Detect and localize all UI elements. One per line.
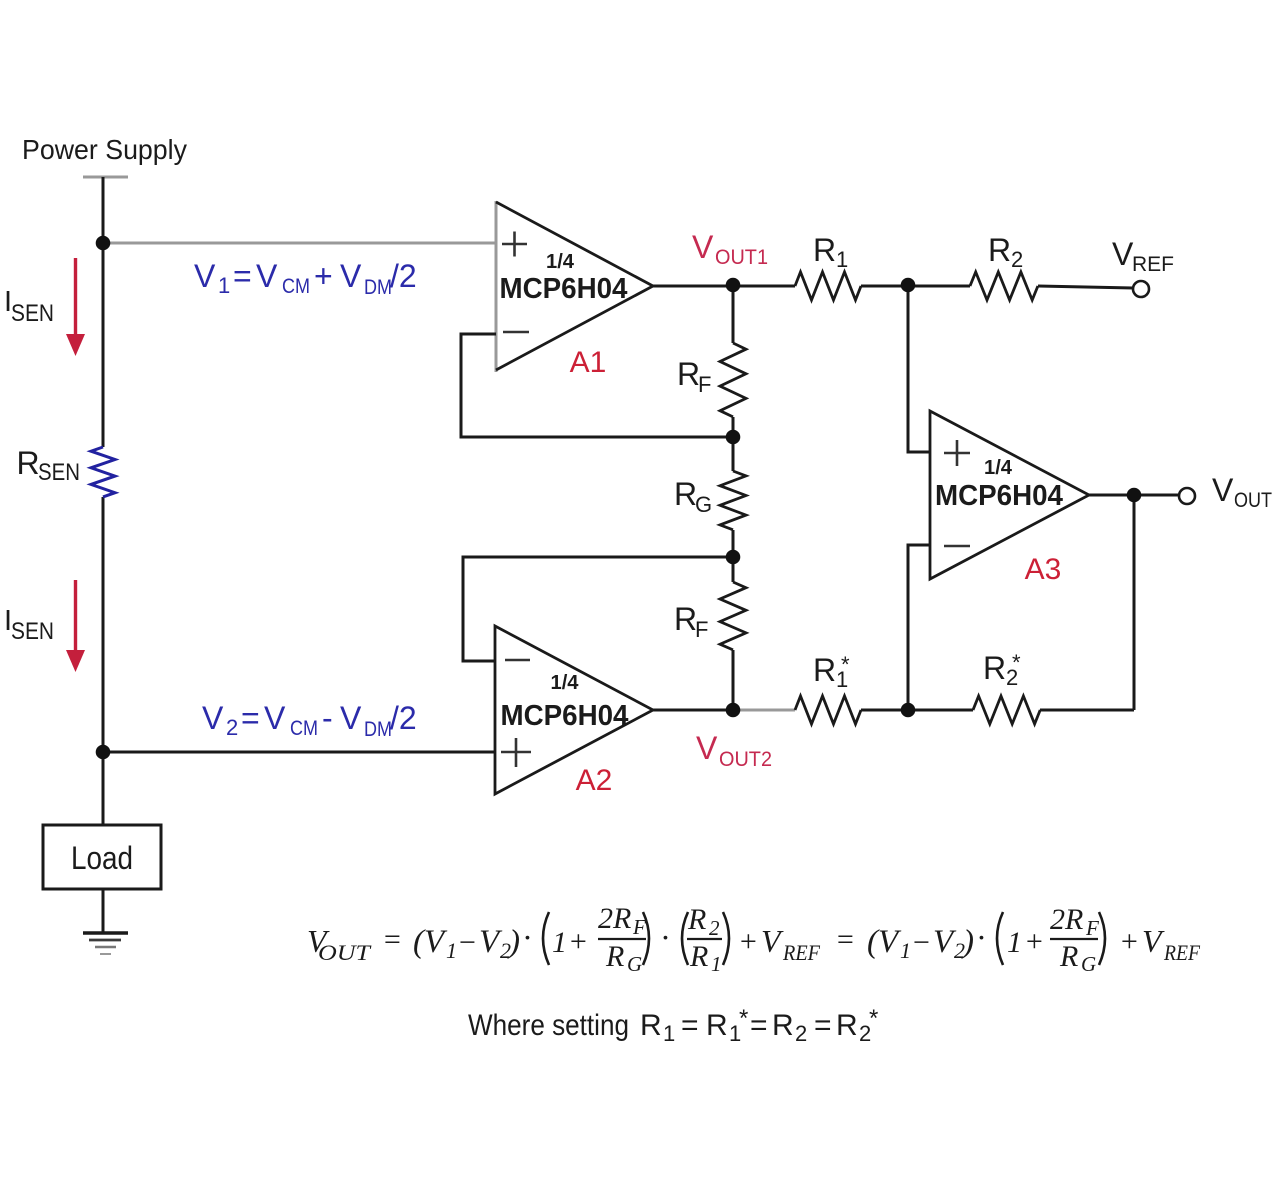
svg-text:R: R — [772, 1009, 794, 1042]
svg-text:V: V — [256, 258, 278, 294]
svg-text:Power Supply: Power Supply — [22, 134, 187, 165]
svg-text:1/4: 1/4 — [551, 672, 580, 694]
svg-text:*: * — [739, 1005, 748, 1032]
svg-text:2: 2 — [795, 1021, 807, 1046]
svg-text:A1: A1 — [570, 346, 607, 379]
svg-text:−: − — [911, 926, 931, 959]
svg-text:DM: DM — [364, 276, 392, 299]
svg-text:1: 1 — [663, 1021, 675, 1046]
svg-text:): ) — [961, 924, 974, 960]
svg-text:·: · — [977, 919, 985, 955]
svg-text:A3: A3 — [1025, 553, 1062, 586]
svg-text:MCP6H04: MCP6H04 — [501, 700, 629, 732]
svg-text:SEN: SEN — [11, 300, 54, 327]
svg-text:R: R — [674, 476, 697, 512]
svg-text:/2: /2 — [390, 700, 417, 736]
svg-text:F: F — [695, 617, 708, 642]
svg-text:1: 1 — [1007, 926, 1022, 959]
svg-text:=: = — [233, 258, 252, 294]
svg-text:1: 1 — [552, 926, 567, 959]
svg-text:V: V — [1112, 236, 1134, 272]
svg-text:2R: 2R — [598, 902, 631, 935]
svg-text:+: + — [568, 925, 588, 958]
svg-text:*: * — [869, 1005, 878, 1032]
svg-text:V: V — [340, 700, 362, 736]
svg-text:R: R — [640, 1009, 662, 1042]
svg-text:R: R — [1059, 940, 1078, 973]
svg-text:R: R — [674, 601, 697, 637]
svg-text:A2: A2 — [576, 764, 613, 797]
svg-text:1: 1 — [218, 273, 230, 298]
svg-text:R: R — [17, 445, 40, 481]
svg-text:*: * — [841, 652, 850, 677]
svg-text:1: 1 — [446, 938, 457, 963]
svg-text:SEN: SEN — [38, 459, 80, 486]
svg-text:OUT: OUT — [318, 940, 372, 965]
svg-text:1: 1 — [836, 247, 848, 272]
svg-text:REF: REF — [782, 940, 820, 965]
svg-text:Load: Load — [71, 840, 133, 876]
svg-text:R: R — [677, 356, 700, 392]
svg-text:*: * — [1012, 650, 1021, 675]
svg-text:Where setting: Where setting — [468, 1009, 629, 1042]
svg-text:V: V — [692, 229, 714, 265]
svg-text:+: + — [738, 925, 758, 958]
svg-text:−: − — [457, 926, 477, 959]
svg-text:+: + — [1119, 925, 1139, 958]
svg-text:2: 2 — [1011, 247, 1023, 272]
svg-text:=: = — [835, 923, 855, 956]
svg-text:V: V — [340, 258, 362, 294]
svg-text:1: 1 — [711, 952, 722, 976]
svg-text:1/4: 1/4 — [546, 251, 575, 273]
svg-text:V: V — [1212, 472, 1234, 508]
svg-text:1: 1 — [900, 938, 911, 963]
svg-text:-: - — [322, 700, 333, 736]
svg-text:=: = — [241, 700, 260, 736]
svg-text:R: R — [813, 232, 836, 268]
svg-text:R: R — [836, 1009, 858, 1042]
svg-text:R: R — [988, 232, 1011, 268]
svg-text:F: F — [632, 915, 646, 939]
svg-text:V: V — [194, 258, 216, 294]
svg-text:·: · — [661, 919, 669, 955]
svg-text:OUT2: OUT2 — [719, 748, 772, 771]
svg-text:=: = — [681, 1009, 699, 1042]
svg-text:CM: CM — [290, 717, 318, 740]
svg-text:REF: REF — [1163, 940, 1200, 965]
svg-text:(V: (V — [413, 924, 448, 960]
svg-text:=: = — [750, 1009, 768, 1042]
svg-text:MCP6H04: MCP6H04 — [935, 480, 1063, 512]
svg-text:/2: /2 — [390, 258, 417, 294]
svg-text:=: = — [814, 1009, 832, 1042]
svg-text:SEN: SEN — [11, 618, 54, 645]
svg-text:·: · — [523, 919, 531, 955]
svg-text:OUT: OUT — [1234, 489, 1272, 512]
svg-text:2R: 2R — [1050, 903, 1083, 936]
svg-text:1/4: 1/4 — [984, 457, 1013, 479]
svg-text:+: + — [314, 258, 333, 294]
svg-text:R: R — [687, 903, 706, 936]
svg-text:R: R — [706, 1009, 728, 1042]
svg-text:R: R — [983, 650, 1006, 686]
svg-text:V: V — [264, 700, 286, 736]
svg-text:MCP6H04: MCP6H04 — [500, 273, 628, 305]
svg-text:OUT1: OUT1 — [715, 246, 768, 269]
svg-text:2: 2 — [709, 916, 720, 940]
svg-text:): ) — [507, 924, 520, 960]
svg-text:G: G — [1081, 952, 1096, 976]
svg-text:REF: REF — [1132, 253, 1174, 276]
svg-text:CM: CM — [282, 275, 310, 298]
svg-text:+: + — [1024, 925, 1044, 958]
svg-text:(V: (V — [867, 924, 902, 960]
svg-text:V: V — [696, 730, 718, 766]
svg-text:R: R — [813, 652, 836, 688]
svg-text:2: 2 — [226, 715, 238, 740]
svg-text:R: R — [605, 940, 624, 973]
svg-text:G: G — [627, 952, 642, 976]
svg-text:G: G — [695, 492, 712, 517]
svg-text:R: R — [689, 940, 708, 973]
svg-text:F: F — [698, 372, 711, 397]
svg-text:=: = — [382, 923, 402, 956]
svg-text:DM: DM — [364, 718, 392, 741]
svg-text:F: F — [1085, 916, 1099, 940]
svg-text:V: V — [202, 700, 224, 736]
